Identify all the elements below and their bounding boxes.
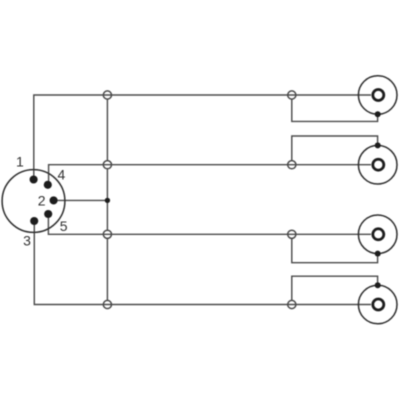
cable shield ring row2 right	[288, 161, 296, 169]
wire pin4 to RCA2 center (row 2)	[49, 165, 371, 185]
wire ground bus vertical segment row1-row2	[106, 99, 108, 160]
RCA connector J3 shield contact dot	[375, 142, 381, 148]
RCA connector J4 center pin	[373, 229, 384, 240]
RCA connector J3 center pin	[373, 159, 384, 170]
svg-text:4: 4	[58, 167, 66, 183]
RCA connector J5 shield contact dot	[375, 282, 381, 288]
RCA connector J3 body	[358, 145, 397, 184]
wire ground bus vertical segment row3-row4	[106, 239, 108, 300]
svg-text:1: 1	[16, 153, 24, 169]
wire pin1 to RCA1 center (row 1)	[34, 95, 371, 180]
wire ground bus vertical segment row2-row3	[106, 169, 108, 230]
RCA connector J2 shield contact dot	[375, 111, 381, 117]
wire RCA3 shield branch	[292, 239, 378, 263]
svg-text:3: 3	[23, 233, 31, 249]
cable shield ring row1 right	[288, 91, 296, 99]
wire RCA1 shield branch	[292, 99, 378, 121]
cable shield ring row2 left	[103, 161, 111, 169]
cable shield ring row3 right	[288, 230, 296, 238]
wire pin2 to ground bus	[54, 199, 108, 201]
junction dot pin2 on ground bus	[105, 198, 110, 203]
DIN connector body	[2, 170, 65, 233]
RCA connector J5 body	[358, 285, 397, 324]
wire RCA2 shield branch	[292, 136, 378, 160]
pin 3	[30, 217, 38, 225]
RCA connector J4 body	[358, 215, 397, 254]
pin 2	[50, 196, 58, 204]
pin 5	[44, 210, 52, 218]
wire RCA4 shield branch	[292, 276, 378, 300]
RCA connector J4 shield contact dot	[375, 251, 381, 257]
cable shield ring row4 right	[288, 300, 296, 308]
svg-text:2: 2	[38, 193, 46, 209]
pin 1	[30, 175, 38, 183]
cable shield ring row4 left	[103, 300, 111, 308]
RCA connector J2 center pin	[373, 90, 384, 101]
RCA connector J5 center pin	[373, 299, 384, 310]
RCA connector J2 body	[358, 76, 397, 115]
cable shield ring row3 left	[103, 230, 111, 238]
wire pin3 to RCA4 center (row 4)	[34, 221, 371, 305]
cable shield ring row1 left	[103, 91, 111, 99]
pin 4	[44, 181, 52, 189]
svg-text:5: 5	[60, 218, 68, 234]
wire pin5 to RCA3 center (row 3)	[48, 214, 371, 234]
